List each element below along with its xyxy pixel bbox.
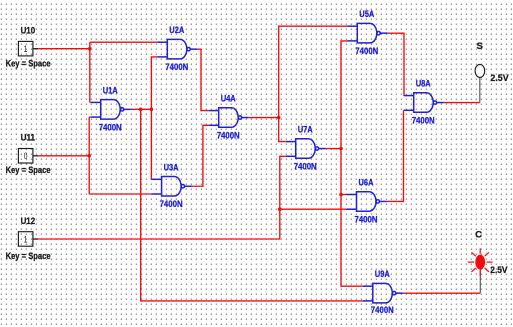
wire net U4A-out: output segment xyxy=(249,117,279,119)
NAND gate U7A (7400N) xyxy=(286,139,326,159)
wire net U7A-out: output segment xyxy=(326,148,341,150)
svg-text:7400N: 7400N xyxy=(217,131,240,142)
wire net Cout: U9A output to probe C xyxy=(403,292,480,294)
wire net U4A-out: drop to U7A input 1 xyxy=(279,118,286,142)
svg-text:7400N: 7400N xyxy=(355,46,378,57)
wire net U7A-out: branch to U6A input 1 xyxy=(341,194,347,196)
svg-text:U3A: U3A xyxy=(164,162,179,173)
wire net A: vertical riser and branch to U2A input 1 xyxy=(90,42,158,102)
NAND gate U8A (7400N) xyxy=(404,93,444,113)
svg-text:U1A: U1A xyxy=(103,85,118,96)
junction net U7A-out at output xyxy=(339,147,343,151)
svg-text:U12: U12 xyxy=(21,216,35,227)
svg-text:1: 1 xyxy=(24,234,28,244)
junction net U1A-out at riser xyxy=(150,108,154,112)
wire net B: branch to U3A input 2 xyxy=(89,193,151,195)
NAND gate U6A (7400N) xyxy=(347,192,387,212)
probe S lead wire xyxy=(479,77,481,102)
svg-text:7400N: 7400N xyxy=(294,162,317,173)
wire net U1A-out: riser to U2A input 2 xyxy=(151,57,157,109)
junction net U1A-out at drop xyxy=(139,108,143,112)
svg-text:7400N: 7400N xyxy=(160,199,183,210)
svg-text:Key = Space: Key = Space xyxy=(6,251,51,262)
svg-text:U7A: U7A xyxy=(298,125,313,136)
svg-text:Key = Space: Key = Space xyxy=(6,59,51,70)
switch U11 xyxy=(18,149,38,164)
wire net B: vertical riser xyxy=(88,117,90,194)
wire net A: branch into U1A input 1 xyxy=(89,101,92,103)
wire net U5A-out to U8A input 1 xyxy=(387,33,404,95)
wire net B: U11 output to junction xyxy=(38,155,89,157)
svg-text:7400N: 7400N xyxy=(355,214,378,225)
svg-text:7400N: 7400N xyxy=(412,116,435,127)
probe S (off) xyxy=(475,64,485,77)
svg-text:2.5V: 2.5V xyxy=(490,73,509,84)
svg-text:7400N: 7400N xyxy=(165,62,188,73)
svg-text:1: 1 xyxy=(24,44,28,54)
svg-text:S: S xyxy=(476,41,483,52)
NAND gate U4A (7400N) xyxy=(209,108,249,128)
junction net B xyxy=(87,154,91,158)
switch U12 xyxy=(18,232,38,247)
svg-text:U9A: U9A xyxy=(375,269,390,280)
svg-text:U5A: U5A xyxy=(359,9,374,20)
svg-text:U2A: U2A xyxy=(169,25,184,36)
wire net S: U8A output to probe S xyxy=(444,102,480,104)
wire net U6A-out to U8A input 2 xyxy=(387,110,404,201)
NAND gate U9A (7400N) xyxy=(363,283,403,303)
switch U10 xyxy=(18,41,38,56)
svg-text:7400N: 7400N xyxy=(99,122,122,133)
svg-text:0: 0 xyxy=(24,151,28,161)
wire net U1A-out: output segment xyxy=(131,108,152,110)
wire net C: branch to U6A input 2 xyxy=(280,208,347,210)
NAND gate U3A (7400N) xyxy=(152,177,192,197)
svg-text:U6A: U6A xyxy=(359,178,374,189)
svg-text:7400N: 7400N xyxy=(371,305,394,316)
wire net U7A-out: drop to U9A input 1 xyxy=(341,149,363,287)
junction net U4A-out xyxy=(277,116,281,120)
wire net U1A-out: drop to U3A input 1 xyxy=(150,109,152,179)
wire net A: U10 output to junction xyxy=(38,48,90,50)
NAND gate U5A (7400N) xyxy=(347,23,387,43)
svg-text:U8A: U8A xyxy=(416,79,431,90)
junction net C xyxy=(278,207,282,211)
wire net U7A-out: riser to U5A input 2 xyxy=(341,41,347,149)
svg-text:U10: U10 xyxy=(21,26,35,37)
wire net U1A-out: long drop and run to U9A input 2 xyxy=(141,109,363,301)
junction net A xyxy=(88,47,92,51)
NAND gate U2A (7400N) xyxy=(157,39,197,59)
NAND gate U1A (7400N) xyxy=(91,100,131,120)
svg-text:2.5V: 2.5V xyxy=(490,265,508,276)
wire net U2A-out to U4A input 1 xyxy=(197,49,208,110)
svg-text:U4A: U4A xyxy=(221,94,236,105)
wire net C: U12 output run xyxy=(38,156,286,239)
probe C (lit) xyxy=(468,248,493,276)
svg-text:U11: U11 xyxy=(21,133,36,144)
wire net U4A-out: riser to U5A input 1 xyxy=(279,26,348,117)
wire net B: branch into U1A input 2 xyxy=(89,116,91,118)
junction net U7A-out at U6A branch xyxy=(339,193,343,197)
svg-text:C: C xyxy=(475,230,482,241)
probe C lead wire xyxy=(479,268,481,293)
svg-text:Key = Space: Key = Space xyxy=(6,165,51,176)
wire net U3A-out to U4A input 2 xyxy=(192,125,209,186)
